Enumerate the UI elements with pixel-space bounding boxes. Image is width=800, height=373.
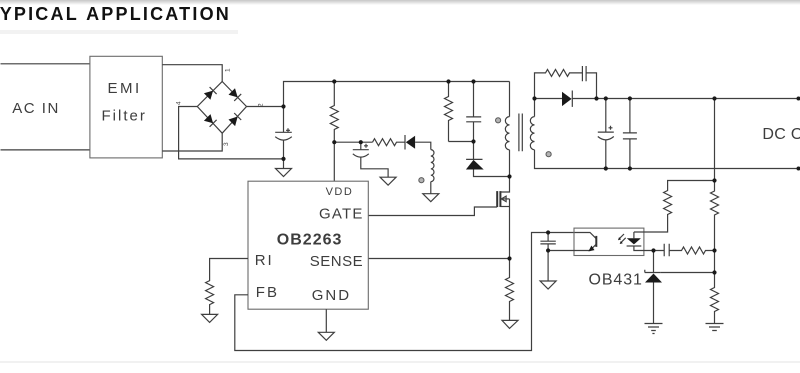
svg-text:GATE: GATE bbox=[319, 205, 364, 222]
svg-text:3: 3 bbox=[223, 142, 230, 146]
svg-text:OB2263: OB2263 bbox=[277, 232, 343, 249]
svg-text:VDD: VDD bbox=[326, 186, 354, 198]
svg-text:EMI: EMI bbox=[108, 80, 142, 97]
svg-text:GND: GND bbox=[312, 287, 351, 304]
svg-text:2: 2 bbox=[258, 103, 265, 107]
svg-text:1: 1 bbox=[225, 68, 232, 72]
svg-text:AC IN: AC IN bbox=[12, 100, 60, 117]
svg-text:SENSE: SENSE bbox=[310, 253, 363, 270]
svg-text:RI: RI bbox=[255, 252, 274, 269]
svg-text:OB431: OB431 bbox=[589, 272, 643, 289]
svg-text:Filter: Filter bbox=[102, 108, 147, 125]
svg-text:FB: FB bbox=[256, 284, 279, 301]
svg-text:4: 4 bbox=[176, 101, 183, 105]
svg-text:DC OUT: DC OUT bbox=[762, 126, 800, 143]
